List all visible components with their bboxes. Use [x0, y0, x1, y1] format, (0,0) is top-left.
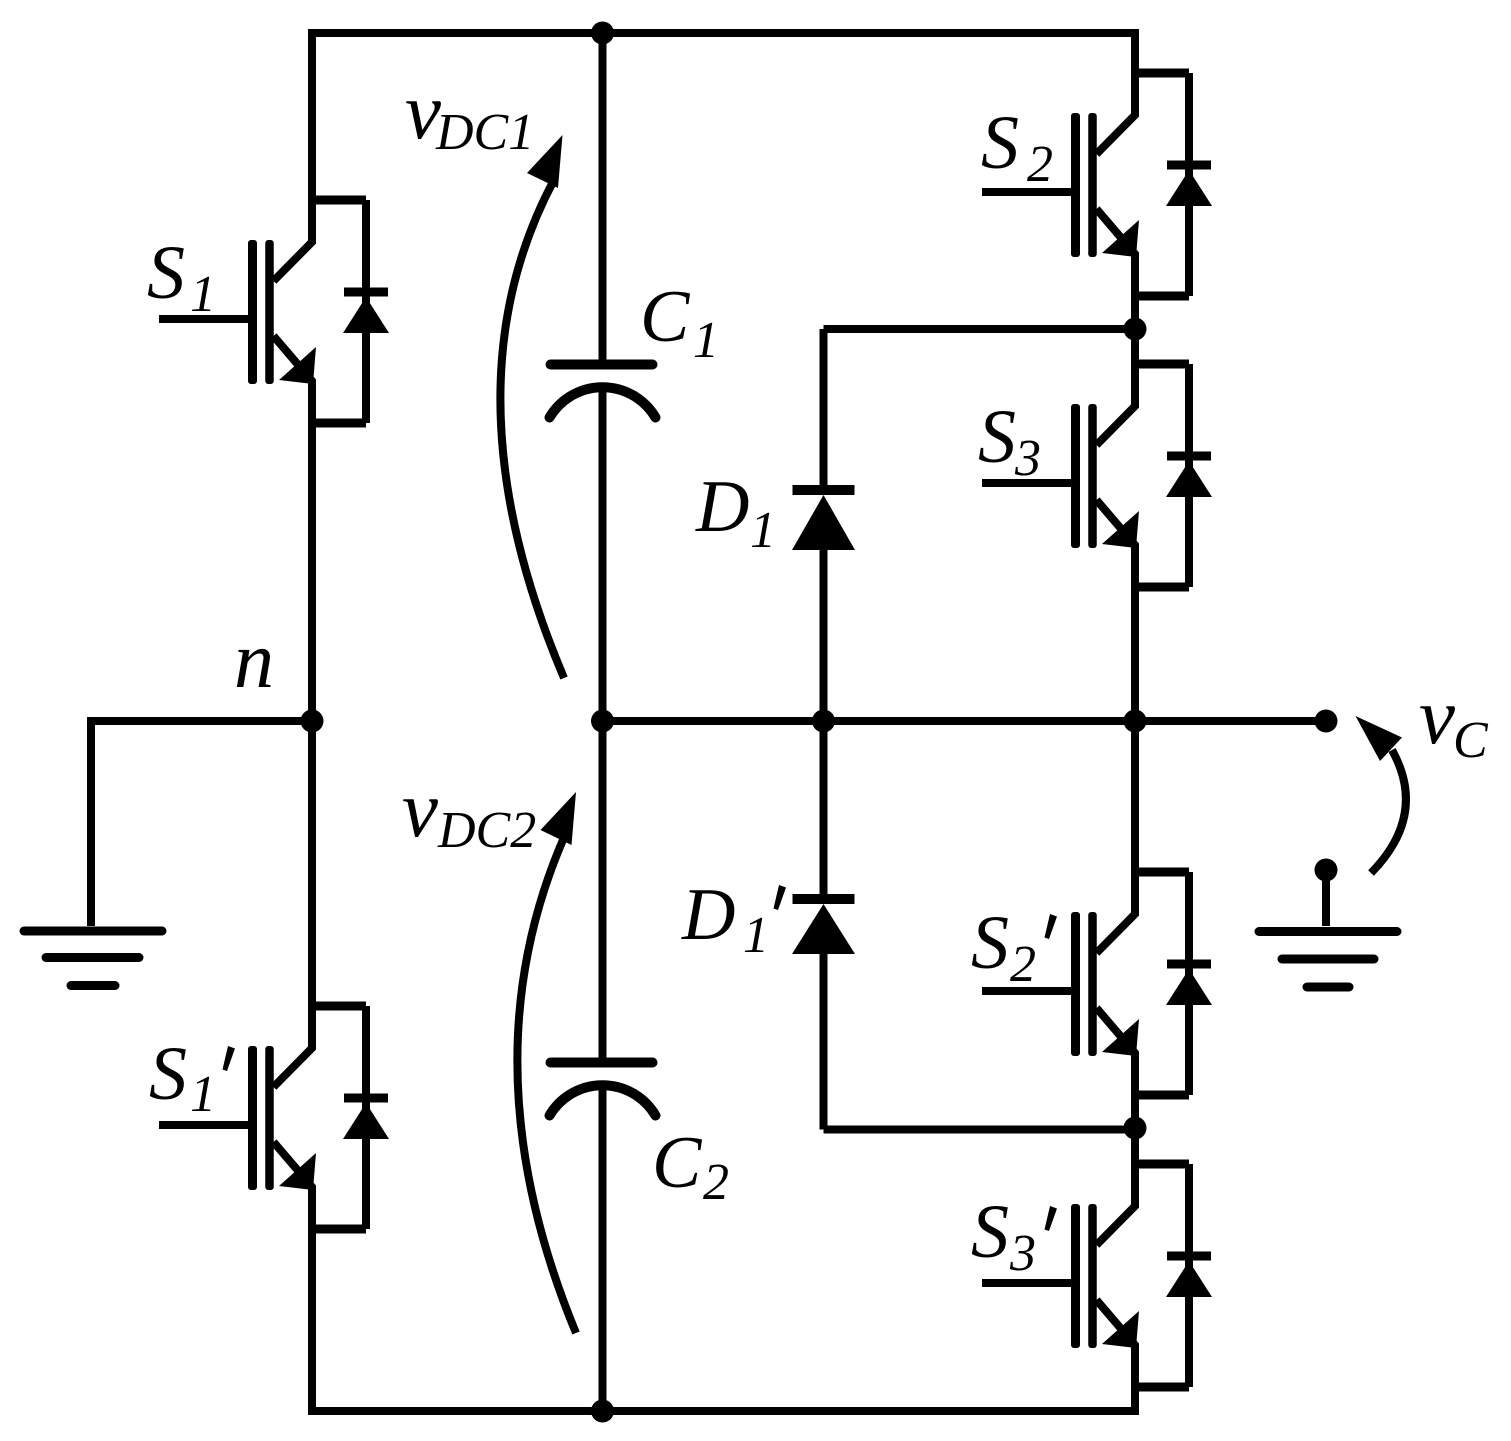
svg-text:S: S — [971, 1190, 1009, 1274]
svg-text:2: 2 — [1010, 936, 1036, 993]
transistor S3 — [982, 364, 1212, 587]
svg-text:D: D — [681, 874, 735, 956]
node S2/S3 midpoint junction — [1124, 318, 1147, 341]
arrow vC measurement — [1356, 716, 1406, 873]
svg-text:D: D — [695, 466, 749, 548]
wire middle output bus — [603, 717, 1327, 725]
capacitor C2 — [550, 1063, 656, 1116]
wire clamp bottom (D1' anode to S2'/S3' midpoint) — [824, 1126, 1136, 1134]
wire top bus — [312, 29, 1135, 37]
transistor S1' — [159, 1006, 389, 1229]
svg-text:C: C — [640, 276, 691, 358]
wire left rail middle (S1 emitter through node n to S1' collector) — [308, 381, 316, 1048]
svg-text:1: 1 — [750, 502, 776, 559]
wire capacitor rail lower (C2 to bottom bus) — [599, 1086, 607, 1411]
wire right rail segment top bus to S2 — [1131, 29, 1139, 73]
label C1 — [640, 276, 719, 369]
wire right ground stem — [1322, 872, 1330, 926]
svg-text:1: 1 — [190, 266, 216, 323]
svg-text:S: S — [981, 101, 1019, 185]
diode D1' — [792, 899, 855, 954]
wire clamp branch vertical (D1 / D1' string) — [820, 329, 828, 486]
svg-text:S: S — [978, 395, 1016, 479]
wire capacitor rail middle (C1 to C2 through mid node) — [599, 387, 607, 1058]
capacitor C1 — [550, 365, 656, 418]
label S2 — [981, 101, 1053, 193]
node n junction — [301, 710, 324, 733]
arrow vDC1 measurement — [500, 135, 564, 678]
svg-text:2: 2 — [1027, 136, 1053, 193]
label vC — [1419, 671, 1489, 769]
svg-text:2: 2 — [703, 1154, 729, 1211]
node mid bus / right rail junction — [1124, 710, 1147, 733]
node bottom bus / capacitor rail junction — [591, 1400, 614, 1423]
transistor S2 — [982, 73, 1212, 296]
wire left ground stem — [87, 721, 95, 926]
svg-text:S: S — [149, 1032, 187, 1116]
node output terminal vC+ — [1315, 710, 1338, 733]
svg-text:DC1: DC1 — [435, 104, 534, 161]
svg-text:n: n — [234, 617, 274, 705]
node top bus / capacitor rail junction — [591, 22, 614, 45]
label D1 — [695, 466, 776, 559]
svg-text:v: v — [402, 764, 438, 854]
node mid bus / clamp branch junction — [812, 710, 835, 733]
svg-text:1: 1 — [693, 312, 719, 369]
svg-text:v: v — [1419, 671, 1455, 761]
wire right rail S3' to bottom bus — [1131, 1387, 1139, 1415]
svg-text:DC2: DC2 — [437, 802, 536, 859]
arrow vDC2 measurement — [517, 792, 576, 1333]
label S1 — [147, 231, 216, 323]
svg-text:S: S — [147, 231, 185, 315]
wire left rail upper (top bus to S1 collector) — [308, 29, 316, 242]
svg-text:C: C — [652, 1122, 703, 1204]
transistor S1 — [159, 200, 389, 423]
ground (output reference) — [1259, 932, 1397, 988]
label D1' — [681, 874, 786, 964]
wire clamp top (D1 cathode to S2/S3 midpoint) — [824, 325, 1136, 333]
wire right rail S2' to S3' — [1131, 1095, 1139, 1164]
svg-text:C: C — [1453, 712, 1489, 769]
wire node n to ground — [91, 721, 312, 725]
node output terminal vC- — [1315, 859, 1338, 882]
node mid bus / capacitor rail junction — [591, 710, 614, 733]
svg-text:S: S — [971, 901, 1009, 985]
wire right rail S3 to S2' (through output node) — [1131, 587, 1139, 872]
label S3 — [978, 395, 1041, 487]
label S1' — [149, 1032, 235, 1123]
svg-text:3: 3 — [1014, 430, 1041, 487]
diode D1 — [792, 490, 855, 550]
transistor S2' — [982, 872, 1212, 1095]
wire bottom bus — [308, 1407, 1135, 1415]
label S3' — [971, 1190, 1057, 1282]
wire capacitor rail upper (top bus to C1) — [599, 33, 607, 360]
svg-text:1: 1 — [190, 1066, 216, 1123]
svg-text:3: 3 — [1009, 1225, 1036, 1282]
label vDC2 — [402, 764, 536, 859]
wire right rail S2 to S3 — [1131, 296, 1139, 364]
ground (node n) — [24, 931, 162, 986]
transistor S3' — [982, 1164, 1212, 1387]
svg-text:1: 1 — [743, 907, 769, 964]
label S2' — [971, 901, 1057, 993]
node S2'/S3' midpoint junction — [1124, 1117, 1147, 1140]
label C2 — [652, 1122, 729, 1211]
wire left rail lower (S1' emitter to bottom bus) — [308, 1187, 316, 1415]
label vDC1 — [405, 66, 534, 161]
